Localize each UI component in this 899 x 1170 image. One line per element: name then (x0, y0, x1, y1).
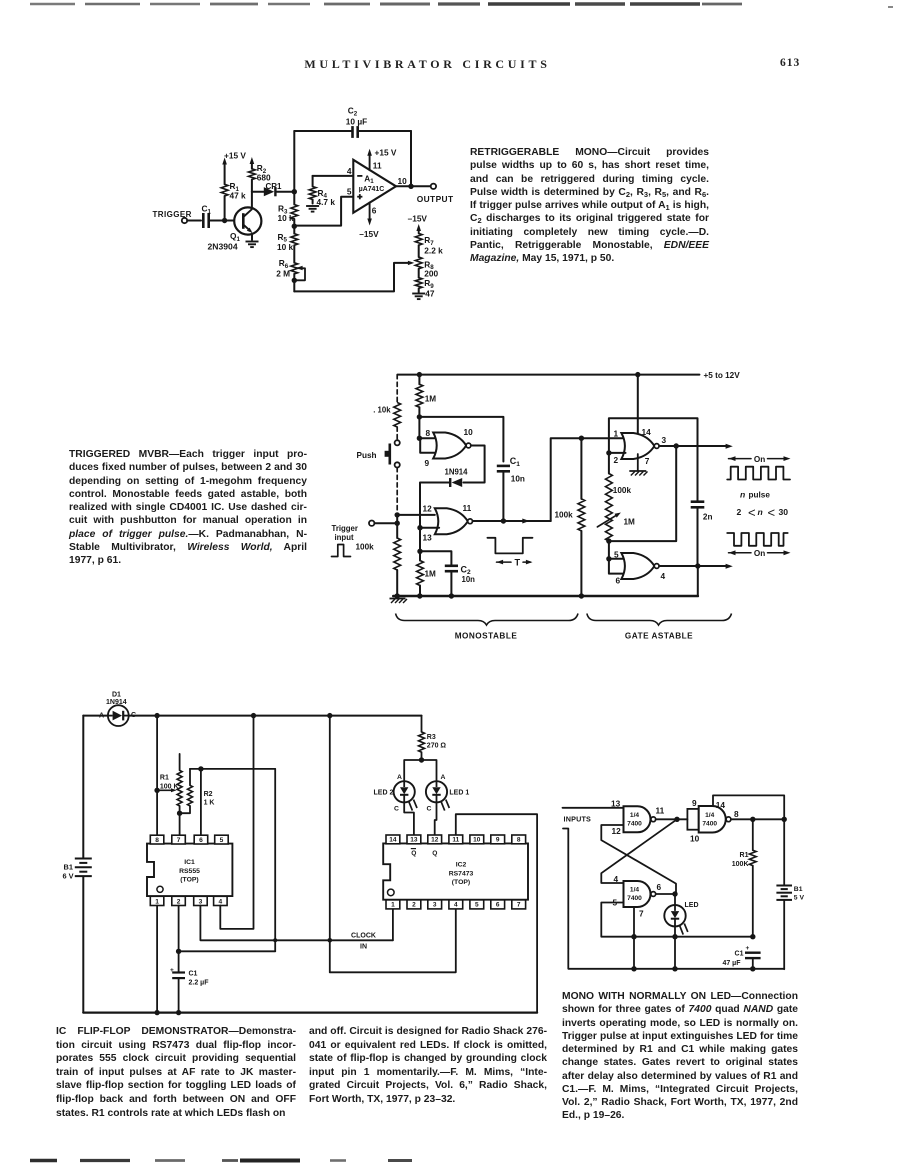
resistor R8 200 (415, 257, 438, 279)
svg-text:1 K: 1 K (204, 799, 215, 806)
node gate3 pin2 junction (606, 450, 625, 455)
svg-text:6 V: 6 V (63, 872, 74, 881)
ground (Q1 emitter) (246, 242, 259, 248)
IC1 pin 3 (194, 896, 208, 905)
pin label 5 (614, 549, 619, 559)
svg-text:–15V: –15V (359, 229, 379, 239)
pin label 11 (463, 503, 472, 513)
svg-text:Q: Q (432, 850, 437, 857)
node TRIGGER input terminal (153, 210, 192, 223)
svg-text:1/4: 1/4 (630, 887, 639, 894)
battery B1 6V (63, 716, 92, 1013)
svg-text:C: C (394, 806, 399, 813)
node pin13 junction (417, 525, 439, 530)
wire gate box outline (609, 418, 698, 499)
svg-text:9: 9 (496, 837, 500, 844)
wire input upper (563, 807, 624, 809)
svg-text:. 10k: . 10k (373, 406, 391, 415)
svg-text:RS7473: RS7473 (449, 870, 474, 877)
pin label 7 (645, 456, 650, 466)
svg-text:14: 14 (389, 837, 397, 844)
resistor R4 4.7k (309, 176, 335, 207)
wire IC1 pin3 clock line (200, 906, 393, 943)
node C2 junction (417, 549, 422, 554)
pin label 6 (657, 882, 662, 892)
node Trigger input terminal (369, 521, 397, 526)
svg-text:LED 2: LED 2 (374, 790, 394, 797)
IC2 top pin 14 (386, 835, 400, 844)
pin label 1 (614, 428, 619, 438)
IC2 bottom pin 2 (407, 900, 421, 909)
wire GC tied inputs (687, 809, 698, 830)
svg-text:4: 4 (454, 902, 458, 909)
svg-text:On: On (754, 455, 765, 464)
svg-text:INPUTS: INPUTS (564, 815, 592, 824)
waveform n pulses (lower) (727, 533, 788, 546)
svg-text:4: 4 (218, 898, 222, 905)
svg-text:+: + (746, 945, 750, 952)
wire GA pin12 (601, 825, 676, 894)
node R1 wiper junction (154, 788, 159, 793)
wire R2 top to pin6 riser (190, 768, 275, 770)
IC1 pin 1 (150, 896, 164, 905)
svg-text:13: 13 (410, 837, 418, 844)
wire pin13 column to C2 node (419, 528, 421, 552)
transistor Q1 2N3904 (208, 192, 262, 252)
svg-text:C: C (131, 712, 136, 719)
pin label 5 (613, 898, 618, 908)
svg-text:Trigger: Trigger (332, 524, 358, 533)
wire gate1 inputs tie (419, 438, 437, 453)
resistor R2 1K (180, 769, 215, 813)
svg-text:4: 4 (614, 874, 619, 884)
svg-text:100 K: 100 K (160, 783, 179, 790)
svg-text:11: 11 (452, 837, 459, 844)
svg-text:30: 30 (779, 507, 789, 517)
NOR gate G3 (pins 1,2,3) (621, 433, 659, 459)
diode CR1 (264, 182, 282, 196)
LED 2 (374, 774, 418, 813)
wire pin6 drop (200, 769, 202, 836)
pin label 4 (661, 571, 666, 581)
LED (circuit 4) (664, 902, 698, 935)
label 2<n<30 (737, 505, 789, 520)
wire feedback right vertical (410, 131, 412, 186)
capacitor C1 2.2uF (170, 967, 209, 1015)
svg-text:47 µF: 47 µF (722, 960, 741, 967)
svg-text:10 k: 10 k (277, 242, 294, 252)
wire node to C1 top (419, 417, 503, 462)
svg-text:7400: 7400 (627, 821, 642, 828)
wire IC1 pin1 to ground rail (154, 906, 159, 1016)
label INPUTS (564, 815, 592, 824)
node rail junction clockriser (327, 713, 332, 718)
svg-text:11: 11 (373, 161, 382, 171)
label GATE ASTABLE brace (587, 614, 732, 641)
label T with arrows (497, 557, 533, 567)
resistor 10k (dashed branch) (373, 403, 400, 428)
node R3-R5 junction (292, 224, 297, 229)
IC2 bottom pin 6 (491, 900, 505, 909)
wire GB pin5 (601, 903, 753, 937)
wire collector to CR1 (252, 191, 264, 193)
svg-text:2n: 2n (703, 512, 713, 521)
wire pin2-pin6 riser (274, 769, 276, 951)
pin label 8 (734, 809, 739, 819)
waveform T pulse (487, 538, 532, 554)
IC2 bottom pin 3 (428, 900, 442, 909)
svg-text:C1: C1 (189, 971, 198, 978)
svg-text:12: 12 (431, 837, 439, 844)
svg-text:R1: R1 (740, 852, 749, 859)
svg-text:IN: IN (360, 943, 367, 950)
pin label 12 (612, 826, 622, 836)
node 1M-C1 junction (417, 414, 422, 419)
wire up to gate3 pin1 (551, 438, 623, 521)
pin label 3 (662, 435, 667, 445)
svg-text:RS555: RS555 (179, 868, 200, 875)
svg-text:13: 13 (611, 798, 621, 808)
pin label 4 (614, 874, 619, 884)
svg-text:T: T (514, 557, 520, 567)
pin label 14 (716, 800, 726, 810)
label n pulse (740, 490, 770, 500)
wire gate2 output (473, 518, 551, 523)
label On upper waveform (729, 455, 791, 464)
ground (R4) (306, 206, 319, 212)
svg-text:9: 9 (692, 798, 697, 808)
IC2 bottom pin 1 (386, 900, 400, 909)
svg-text:10 k: 10 k (278, 213, 295, 223)
ground rail (circuit 4) (634, 968, 784, 970)
pin label 9 (425, 458, 430, 468)
capacitor 2n (691, 499, 713, 566)
svg-text:A: A (397, 774, 402, 781)
svg-text:1M: 1M (425, 394, 437, 403)
NAND gate GA (13,12,11) (624, 806, 656, 832)
node gate4 pins junction (606, 541, 611, 561)
svg-text:5 V: 5 V (794, 895, 805, 902)
NOR gate G2 (pins 12,13,11) (435, 508, 473, 534)
svg-text:C1: C1 (735, 951, 744, 958)
wire cross to GB pin4 (601, 819, 677, 883)
node trigger junction (395, 515, 400, 526)
NOR gate G4 (pins 5,6,4) (621, 553, 659, 579)
pin label 11 (656, 806, 665, 816)
svg-text:5: 5 (614, 549, 619, 559)
wire feedback left vertical (293, 131, 295, 192)
svg-text:7400: 7400 (627, 895, 642, 902)
node GC output junction R1 (750, 817, 755, 822)
svg-text:100k: 100k (613, 486, 632, 495)
resistor R5 10k (277, 226, 298, 263)
svg-text:Q: Q (411, 850, 416, 857)
trigger pulse symbol (332, 545, 351, 557)
svg-text:GATE ASTABLE: GATE ASTABLE (625, 632, 693, 641)
NOR gate G1 (pins 8,9,10) (433, 433, 471, 459)
svg-text:6: 6 (496, 902, 500, 909)
IC2 top pin 11 (449, 835, 463, 844)
IC2 top pin 13 (407, 835, 421, 844)
capacitor C1 10n (497, 456, 525, 484)
wire top rail (circuit3) (83, 715, 421, 717)
wire GC pin14 to battery+ (713, 795, 784, 884)
IC1 pin 8 (150, 835, 164, 844)
waveform n pulses (upper) (727, 467, 790, 480)
diode D1 1N914 (99, 692, 136, 726)
svg-text:<: < (768, 505, 776, 520)
node OUTPUT terminal (417, 184, 454, 204)
pin label 5 (347, 187, 352, 197)
wire diode to pin13 column (420, 483, 450, 528)
svg-text:R3: R3 (427, 734, 436, 741)
svg-text:7: 7 (177, 837, 181, 844)
svg-text:10n: 10n (511, 475, 525, 484)
wire GC output (731, 818, 784, 820)
wire op-amp pin5 to divider (295, 197, 353, 226)
pin label 13 (423, 532, 433, 542)
capacitor C1 (202, 204, 212, 229)
svg-text:pulse: pulse (749, 491, 771, 500)
svg-text:2: 2 (412, 902, 416, 909)
wire gate4 output (659, 563, 733, 569)
node trigger-pin12 junction (395, 512, 400, 517)
svg-text:12: 12 (423, 504, 433, 514)
svg-text:6: 6 (657, 882, 662, 892)
svg-text:OUTPUT: OUTPUT (417, 194, 454, 204)
resistor R1 100K (732, 819, 756, 937)
svg-text:10: 10 (473, 837, 481, 844)
svg-text:8: 8 (517, 837, 521, 844)
svg-text:8: 8 (155, 837, 159, 844)
wire pot to gate3 output (609, 446, 676, 541)
pin label 8 (426, 428, 431, 438)
LED 1 (426, 774, 469, 813)
label Qbar (411, 849, 417, 857)
wire LED2 cathode to pin13 (404, 802, 414, 835)
IC2 top pin 8 (512, 835, 526, 844)
NAND gate GB (4,5,6) (624, 881, 656, 907)
svg-text:6: 6 (199, 837, 203, 844)
node LED branch junction (419, 757, 424, 762)
node base junction (222, 218, 227, 223)
capacitor C2 10n (445, 564, 475, 584)
IC2 top pin 12 (428, 835, 442, 844)
svg-text:R1: R1 (160, 775, 169, 782)
svg-text:8: 8 (734, 809, 739, 819)
wire output (396, 184, 431, 189)
node gate1 input junction (417, 417, 422, 441)
IC2 bottom pin 7 (512, 900, 526, 909)
wire C1 to gate2 output (502, 471, 504, 521)
wire GB pin7 to ground (631, 907, 636, 972)
svg-text:4: 4 (347, 166, 352, 176)
svg-text:1M: 1M (624, 518, 636, 527)
node R1-R2 bottom junction (177, 806, 182, 816)
svg-text:1: 1 (391, 902, 395, 909)
svg-text:1M: 1M (425, 570, 437, 579)
svg-text:IC2: IC2 (456, 862, 467, 869)
svg-text:10: 10 (690, 834, 700, 844)
wire CR1 to node (277, 189, 297, 194)
svg-text:n: n (740, 490, 745, 500)
IC1 RS555 package (147, 844, 232, 897)
node R1-C1 junction (750, 934, 755, 939)
node pin6 junction (198, 766, 203, 771)
svg-text:+: + (170, 967, 174, 974)
svg-text:2N3904: 2N3904 (208, 241, 238, 251)
svg-text:100K: 100K (732, 861, 749, 868)
svg-text:C1: C1 (510, 456, 521, 468)
pin label 6 (616, 576, 621, 586)
IC1 pin 6 (194, 835, 208, 844)
wire junction to pin7 (179, 813, 181, 835)
svg-text:A: A (441, 774, 446, 781)
svg-text:5: 5 (220, 837, 224, 844)
wire to gate2 pin12 (397, 514, 435, 516)
node rail junction 1M (417, 372, 422, 377)
svg-text:270 Ω: 270 Ω (427, 742, 447, 749)
resistor 100k + pot 1M (astable) (597, 453, 635, 541)
svg-text:3: 3 (433, 902, 437, 909)
node GA output junction (674, 817, 679, 822)
wire pin2 node to riser (179, 950, 276, 952)
node pot bottom junction (606, 538, 611, 543)
svg-text:1N914: 1N914 (106, 699, 127, 706)
svg-text:µA741C: µA741C (359, 186, 384, 193)
svg-text:+15 V: +15 V (224, 151, 246, 161)
ground (R9) (412, 294, 425, 300)
svg-text:7: 7 (645, 456, 650, 466)
resistor R1 47k (221, 158, 246, 220)
power rail +5 to 12V (398, 371, 741, 380)
svg-text:+5 to 12V: +5 to 12V (704, 371, 741, 380)
wire IC1 pin4 to rail (220, 716, 253, 929)
svg-text:Push: Push (357, 451, 377, 460)
node rail junction gate3 (635, 372, 640, 377)
svg-text:1/4: 1/4 (630, 812, 639, 819)
svg-text:5: 5 (475, 902, 479, 909)
svg-text:LED 1: LED 1 (449, 790, 469, 797)
pin label 10 (464, 427, 474, 437)
label Trigger input (332, 524, 358, 542)
svg-text:C: C (427, 806, 432, 813)
pin label 10 (398, 176, 408, 186)
wire dashed pushbutton branch lower (396, 468, 398, 513)
wire riser to IC2 pin4 (330, 908, 456, 973)
scan artifact bottom edge (30, 1159, 412, 1162)
wire dashed pushbutton branch upper (396, 375, 398, 403)
wire dashed to push contact (396, 427, 398, 440)
wire pin8 drop (156, 716, 158, 836)
resistor R3 270ohm (419, 716, 447, 760)
power +15V (op-amp pin 11) (367, 147, 397, 170)
scan artifact top edge (30, 4, 893, 7)
wire clock to IC2 pin1 (392, 908, 394, 941)
resistor 1M (monostable top) (416, 375, 436, 417)
svg-text:MONOSTABLE: MONOSTABLE (455, 632, 518, 641)
svg-text:13: 13 (423, 532, 433, 542)
wire LED feed split (404, 760, 436, 781)
svg-text:2 M: 2 M (276, 269, 290, 279)
resistor 100k (trigger) (356, 523, 401, 596)
wire GB output to LED (656, 891, 678, 905)
svg-text:IC1: IC1 (184, 859, 195, 866)
wire gate4 input ties (609, 559, 626, 574)
svg-text:47: 47 (425, 288, 435, 298)
svg-text:1N914: 1N914 (445, 468, 469, 477)
svg-text:CLOCK: CLOCK (351, 932, 376, 939)
ground (rail hatch) (390, 599, 408, 604)
svg-text:B1: B1 (64, 863, 73, 872)
node 100k pulldown junction (579, 436, 584, 441)
svg-text:7400: 7400 (702, 821, 717, 828)
IC1 pin 2 (172, 896, 186, 905)
svg-text:10: 10 (398, 176, 408, 186)
svg-text:7: 7 (517, 902, 521, 909)
wire C1 to Q1 base (209, 220, 244, 222)
svg-text:2: 2 (614, 455, 619, 465)
wire IC1 pin2 to C1 (176, 906, 181, 973)
svg-text:1: 1 (614, 428, 619, 438)
svg-text:<: < (748, 505, 756, 520)
svg-text:2.2 µF: 2.2 µF (189, 980, 210, 987)
wire to C2 (420, 551, 451, 565)
node rail junction pin8 (154, 713, 159, 718)
pin label 13 (611, 798, 621, 808)
svg-text:On: On (754, 549, 765, 558)
NAND gate GC (9,10,8) (699, 806, 731, 833)
ground (gate3 pin7) (629, 454, 647, 476)
resistor 100k (pulldown) (555, 438, 585, 596)
IC1 pin 4 (214, 896, 228, 905)
pin label 12 (423, 504, 433, 514)
pin label 2 (614, 455, 619, 465)
diode 1N914 (445, 468, 469, 488)
resistor 1M (bottom) (417, 551, 436, 596)
label CLOCK IN (351, 932, 376, 950)
wire gate3 output (659, 444, 733, 449)
svg-text:2: 2 (737, 507, 742, 517)
svg-text:11: 11 (656, 806, 665, 816)
svg-text:B1: B1 (794, 886, 803, 893)
IC2 bottom pin 4 (449, 900, 463, 909)
IC2 RS7473 package (383, 843, 528, 899)
wire LED1 cathode to pin12 (435, 802, 437, 835)
wire GA output (656, 818, 688, 820)
svg-text:LED: LED (685, 902, 699, 909)
ground rail (circuit 3) (83, 1011, 537, 1013)
wire gate3 pin14 to rail (637, 375, 639, 437)
svg-text:10: 10 (464, 427, 474, 437)
power -15V (op-amp pin 6) (359, 202, 379, 239)
IC1 pin 7 (172, 835, 186, 844)
svg-text:4.7 k: 4.7 k (317, 197, 336, 207)
capacitor C2 10uF (346, 106, 367, 138)
resistor R9 47 (415, 278, 435, 299)
pin label 4 (347, 166, 352, 176)
wire input lower to ground rail (563, 829, 634, 969)
svg-text:100k: 100k (356, 543, 375, 552)
svg-text:9: 9 (425, 458, 430, 468)
pin label 10 (690, 834, 700, 844)
svg-text:680: 680 (257, 173, 271, 183)
wire LED cathode to rail (672, 926, 677, 971)
svg-text:12: 12 (612, 826, 622, 836)
svg-text:3: 3 (662, 435, 667, 445)
svg-text:3: 3 (199, 898, 203, 905)
power -15V (divider) (408, 213, 428, 233)
